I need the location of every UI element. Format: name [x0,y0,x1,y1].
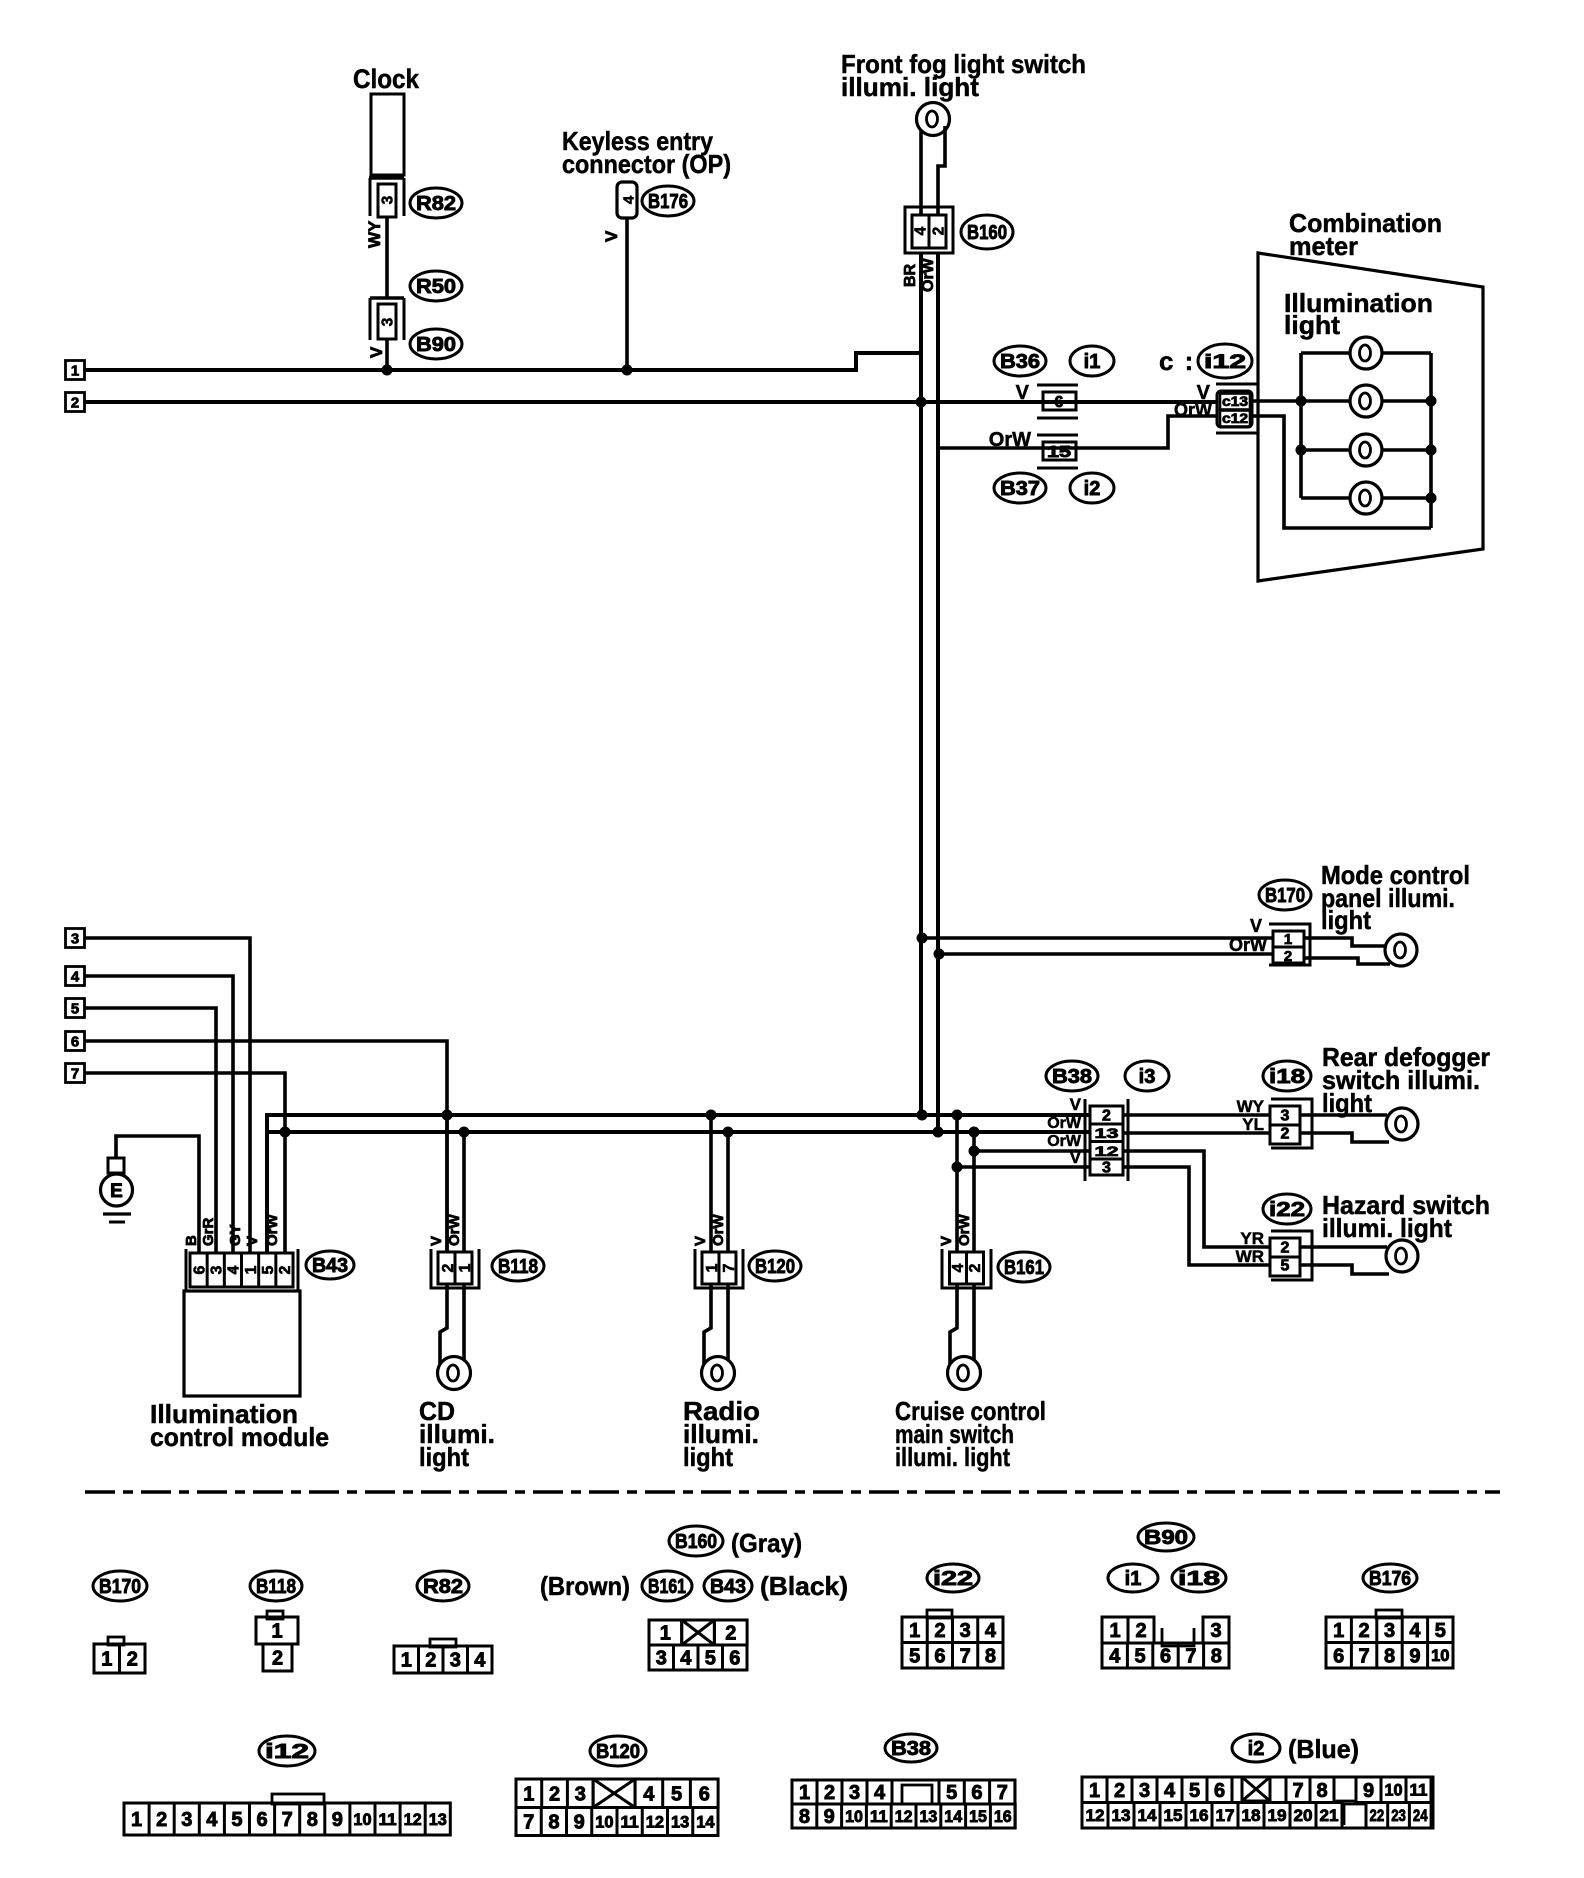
svg-text:B161: B161 [1004,1257,1044,1279]
svg-text:9: 9 [574,1812,585,1834]
svg-text:1: 1 [704,1263,721,1272]
svg-text:3: 3 [380,195,397,204]
svg-text:2: 2 [1284,948,1292,965]
svg-text:B118: B118 [256,1576,296,1598]
svg-text:8: 8 [548,1812,559,1834]
svg-text:18: 18 [1242,1807,1261,1825]
svg-text:3: 3 [849,1782,860,1804]
svg-text:1: 1 [1089,1780,1100,1802]
svg-text:5: 5 [1135,1646,1146,1668]
svg-text:6: 6 [729,1648,740,1670]
svg-text:9: 9 [1409,1645,1420,1667]
svg-text:2: 2 [277,1265,294,1274]
svg-text:2: 2 [549,1783,560,1805]
svg-text:2: 2 [824,1782,835,1804]
svg-text:connector (OP): connector (OP) [562,149,731,179]
svg-text:2: 2 [967,1263,984,1272]
svg-text:i22: i22 [933,1568,973,1590]
svg-text:1: 1 [457,1263,474,1272]
svg-text:OrW: OrW [710,1213,727,1246]
svg-text:5: 5 [909,1645,920,1667]
svg-text:R82: R82 [416,193,456,215]
svg-text:V: V [1070,1095,1082,1114]
svg-text:1: 1 [1284,931,1292,948]
svg-text:B170: B170 [99,1576,141,1598]
svg-text:illumi. light: illumi. light [1322,1213,1452,1243]
svg-text:c :: c : [1159,346,1195,376]
svg-text:6: 6 [1214,1780,1225,1802]
svg-text:5: 5 [71,1000,79,1017]
svg-text:4: 4 [620,195,637,204]
svg-text:B120: B120 [755,1256,795,1278]
svg-text:12: 12 [404,1811,422,1829]
svg-text:(Gray): (Gray) [731,1528,802,1558]
svg-text:6: 6 [934,1645,945,1667]
svg-text:9: 9 [824,1806,835,1828]
svg-text:1: 1 [243,1265,260,1274]
svg-text:B170: B170 [1265,885,1305,907]
svg-text:13: 13 [429,1811,447,1829]
svg-text:3: 3 [71,930,79,947]
svg-text:light: light [1284,310,1340,340]
svg-text:4: 4 [680,1648,692,1670]
svg-text:i2: i2 [1248,1738,1265,1760]
svg-text:24: 24 [1413,1807,1428,1825]
svg-text:6: 6 [971,1782,982,1804]
svg-text:4: 4 [950,1263,967,1272]
svg-text:8: 8 [307,1809,318,1831]
svg-text:6: 6 [1333,1645,1344,1667]
svg-text:10: 10 [1385,1782,1403,1800]
svg-text:5: 5 [946,1782,957,1804]
svg-text:4: 4 [1164,1780,1176,1802]
svg-text:7: 7 [1359,1645,1370,1667]
svg-text:1: 1 [131,1809,142,1831]
svg-text:V: V [1070,1148,1082,1167]
svg-text:14: 14 [696,1813,715,1831]
svg-text:GY: GY [227,1224,244,1246]
svg-text:Clock: Clock [353,64,420,94]
svg-text:4: 4 [206,1809,218,1831]
svg-text:7: 7 [1292,1780,1303,1802]
svg-text:3: 3 [450,1650,461,1672]
svg-text:3: 3 [1139,1780,1150,1802]
svg-text:3: 3 [1384,1620,1395,1642]
svg-text:2: 2 [71,394,79,411]
svg-text:7: 7 [71,1065,79,1082]
svg-text:B37: B37 [1000,478,1040,500]
svg-text:B120: B120 [596,1741,640,1763]
svg-text:8: 8 [799,1806,810,1828]
svg-text:(Blue): (Blue) [1288,1734,1359,1764]
svg-text:13: 13 [1112,1807,1131,1825]
svg-text:21: 21 [1320,1807,1339,1825]
svg-text:B90: B90 [1144,1527,1188,1549]
svg-text:3: 3 [960,1620,971,1642]
svg-text:4: 4 [71,968,80,985]
svg-text:V: V [602,230,621,242]
svg-text:B36: B36 [1000,351,1040,373]
svg-text:16: 16 [1190,1807,1209,1825]
svg-text:i2: i2 [1084,478,1101,500]
svg-text:22: 22 [1370,1807,1385,1825]
svg-text:17: 17 [1216,1807,1235,1825]
svg-text:13: 13 [671,1813,689,1831]
svg-text:4: 4 [1109,1646,1121,1668]
svg-text:11: 11 [1410,1782,1428,1800]
svg-text:5: 5 [260,1265,277,1274]
svg-text:15: 15 [1047,444,1071,461]
svg-text:1: 1 [909,1620,920,1642]
svg-text:1: 1 [799,1782,810,1804]
svg-text:B43: B43 [710,1576,746,1598]
svg-text:6: 6 [699,1783,710,1805]
svg-text:2: 2 [1281,1126,1290,1143]
svg-text:4: 4 [913,226,930,235]
svg-text:WR: WR [1236,1247,1264,1266]
svg-text:control module: control module [150,1422,329,1452]
svg-text:1: 1 [660,1623,671,1645]
svg-text:5: 5 [1435,1620,1446,1642]
svg-text:3: 3 [380,317,397,326]
svg-text:4: 4 [643,1783,655,1805]
svg-text:5: 5 [671,1783,682,1805]
svg-text:7: 7 [721,1263,738,1272]
svg-text:6: 6 [256,1809,267,1831]
svg-text:E: E [110,1181,123,1202]
svg-text:14: 14 [1138,1807,1158,1825]
svg-text:V: V [428,1236,445,1246]
svg-text:BR: BR [902,263,919,287]
svg-text:12: 12 [1086,1807,1105,1825]
svg-text:3: 3 [1210,1620,1221,1642]
svg-text:1: 1 [401,1650,412,1672]
svg-text:i18: i18 [1269,1066,1305,1088]
svg-text:10: 10 [845,1808,863,1826]
svg-text:9: 9 [332,1809,343,1831]
svg-text:2: 2 [1281,1240,1290,1257]
svg-text:4: 4 [474,1650,486,1672]
svg-text:2: 2 [1102,1108,1111,1125]
svg-text:7: 7 [1185,1646,1196,1668]
svg-text:(Brown): (Brown) [540,1571,630,1601]
svg-text:4: 4 [874,1782,886,1804]
svg-text:5: 5 [1189,1780,1200,1802]
svg-text:3: 3 [575,1783,586,1805]
svg-text:4: 4 [226,1265,243,1274]
svg-text:8: 8 [985,1645,996,1667]
svg-text:YL: YL [1242,1115,1264,1134]
svg-text:B176: B176 [1369,1568,1411,1590]
svg-text:V: V [938,1236,955,1246]
svg-text:2: 2 [156,1809,167,1831]
svg-text:B161: B161 [648,1576,686,1598]
svg-text:2: 2 [1114,1780,1125,1802]
svg-text:V: V [367,346,386,358]
svg-text:10: 10 [595,1813,613,1831]
svg-text:5: 5 [231,1809,242,1831]
svg-text:B160: B160 [675,1531,717,1553]
svg-text:2: 2 [725,1623,736,1645]
svg-text:7: 7 [523,1812,534,1834]
svg-text:2: 2 [272,1648,283,1670]
svg-text:1: 1 [71,362,79,379]
svg-text:B43: B43 [312,1255,348,1277]
svg-text:i18: i18 [1178,1568,1220,1590]
svg-text:meter: meter [1289,231,1358,261]
svg-text:9: 9 [1363,1780,1374,1802]
svg-text:7: 7 [282,1809,293,1831]
svg-text:1: 1 [271,1621,282,1643]
svg-text:WY: WY [365,220,384,248]
svg-text:3: 3 [209,1265,226,1274]
svg-text:1: 1 [1109,1620,1120,1642]
svg-text:1: 1 [101,1649,112,1671]
svg-text:B118: B118 [498,1256,538,1278]
svg-text:i1: i1 [1125,1568,1142,1590]
svg-text:3: 3 [1281,1108,1290,1125]
svg-text:2: 2 [127,1649,138,1671]
svg-text:2: 2 [1135,1620,1146,1642]
svg-text:8: 8 [1316,1780,1327,1802]
svg-text:10: 10 [1431,1647,1449,1665]
svg-text:11: 11 [379,1811,397,1829]
svg-text:8: 8 [1211,1646,1222,1668]
svg-text:illumi. light: illumi. light [841,72,979,102]
svg-text:B38: B38 [1052,1066,1092,1088]
svg-text:3: 3 [656,1648,667,1670]
svg-text:2: 2 [934,1620,945,1642]
svg-text:OrW: OrW [956,1213,973,1246]
svg-text:YR: YR [1240,1229,1264,1248]
svg-text:12: 12 [895,1808,913,1826]
svg-text:i12: i12 [265,1741,309,1763]
svg-text:i22: i22 [1269,1199,1305,1221]
svg-text:12: 12 [646,1813,664,1831]
svg-text:light: light [1321,905,1371,935]
svg-text:2: 2 [1359,1620,1370,1642]
svg-text:1: 1 [1333,1620,1344,1642]
svg-text:V: V [1250,916,1262,936]
svg-text:OrW: OrW [1047,1115,1082,1132]
svg-text:OrW: OrW [446,1213,463,1246]
svg-text:6: 6 [1160,1646,1171,1668]
svg-text:6: 6 [1055,394,1064,411]
svg-text:c13: c13 [1222,394,1249,409]
svg-text:20: 20 [1294,1807,1313,1825]
svg-text:13: 13 [920,1808,938,1826]
svg-text:(Black): (Black) [760,1571,848,1601]
svg-text:OrW: OrW [1174,400,1212,420]
svg-text:i1: i1 [1084,351,1101,373]
svg-text:5: 5 [705,1648,716,1670]
svg-text:1: 1 [523,1783,534,1805]
svg-text:OrW: OrW [1229,935,1267,955]
svg-text:16: 16 [994,1808,1012,1826]
svg-text:8: 8 [1384,1645,1395,1667]
svg-text:6: 6 [191,1265,208,1274]
svg-text:2: 2 [931,227,948,236]
svg-text:B: B [183,1235,200,1246]
svg-text:WY: WY [1237,1097,1265,1116]
svg-text:15: 15 [969,1808,987,1826]
svg-text:GrR: GrR [200,1217,217,1246]
svg-text:23: 23 [1391,1807,1406,1825]
svg-text:R82: R82 [423,1576,463,1598]
svg-text:10: 10 [353,1811,371,1829]
svg-text:i12: i12 [1204,352,1246,373]
svg-text:R50: R50 [416,276,456,298]
svg-text:2: 2 [440,1263,457,1272]
svg-text:illumi. light: illumi. light [895,1442,1010,1472]
svg-text:12: 12 [1095,1143,1119,1159]
svg-text:3: 3 [1102,1160,1111,1177]
svg-text:19: 19 [1268,1807,1287,1825]
svg-text:4: 4 [1409,1620,1421,1642]
svg-text:5: 5 [1281,1258,1290,1275]
svg-text:7: 7 [997,1782,1008,1804]
svg-text:2: 2 [425,1650,436,1672]
svg-text:OrW: OrW [264,1213,281,1246]
svg-text:light: light [683,1442,733,1472]
svg-text:light: light [419,1442,469,1472]
svg-text:V: V [692,1236,709,1246]
svg-text:light: light [1322,1088,1372,1118]
svg-text:4: 4 [985,1620,997,1642]
svg-text:B176: B176 [648,191,688,213]
svg-text:13: 13 [1095,1125,1119,1141]
svg-text:11: 11 [870,1808,888,1826]
svg-text:15: 15 [1164,1807,1183,1825]
svg-text:i3: i3 [1139,1066,1156,1088]
svg-text:c12: c12 [1222,411,1248,426]
svg-text:14: 14 [944,1808,963,1826]
svg-text:V: V [1016,382,1030,404]
svg-text:B90: B90 [416,334,456,356]
svg-text:6: 6 [71,1033,79,1050]
svg-text:3: 3 [181,1809,192,1831]
svg-text:11: 11 [621,1813,639,1831]
svg-text:7: 7 [960,1645,971,1667]
svg-text:V: V [244,1236,261,1246]
svg-text:B38: B38 [891,1738,931,1760]
svg-text:B160: B160 [967,222,1007,244]
